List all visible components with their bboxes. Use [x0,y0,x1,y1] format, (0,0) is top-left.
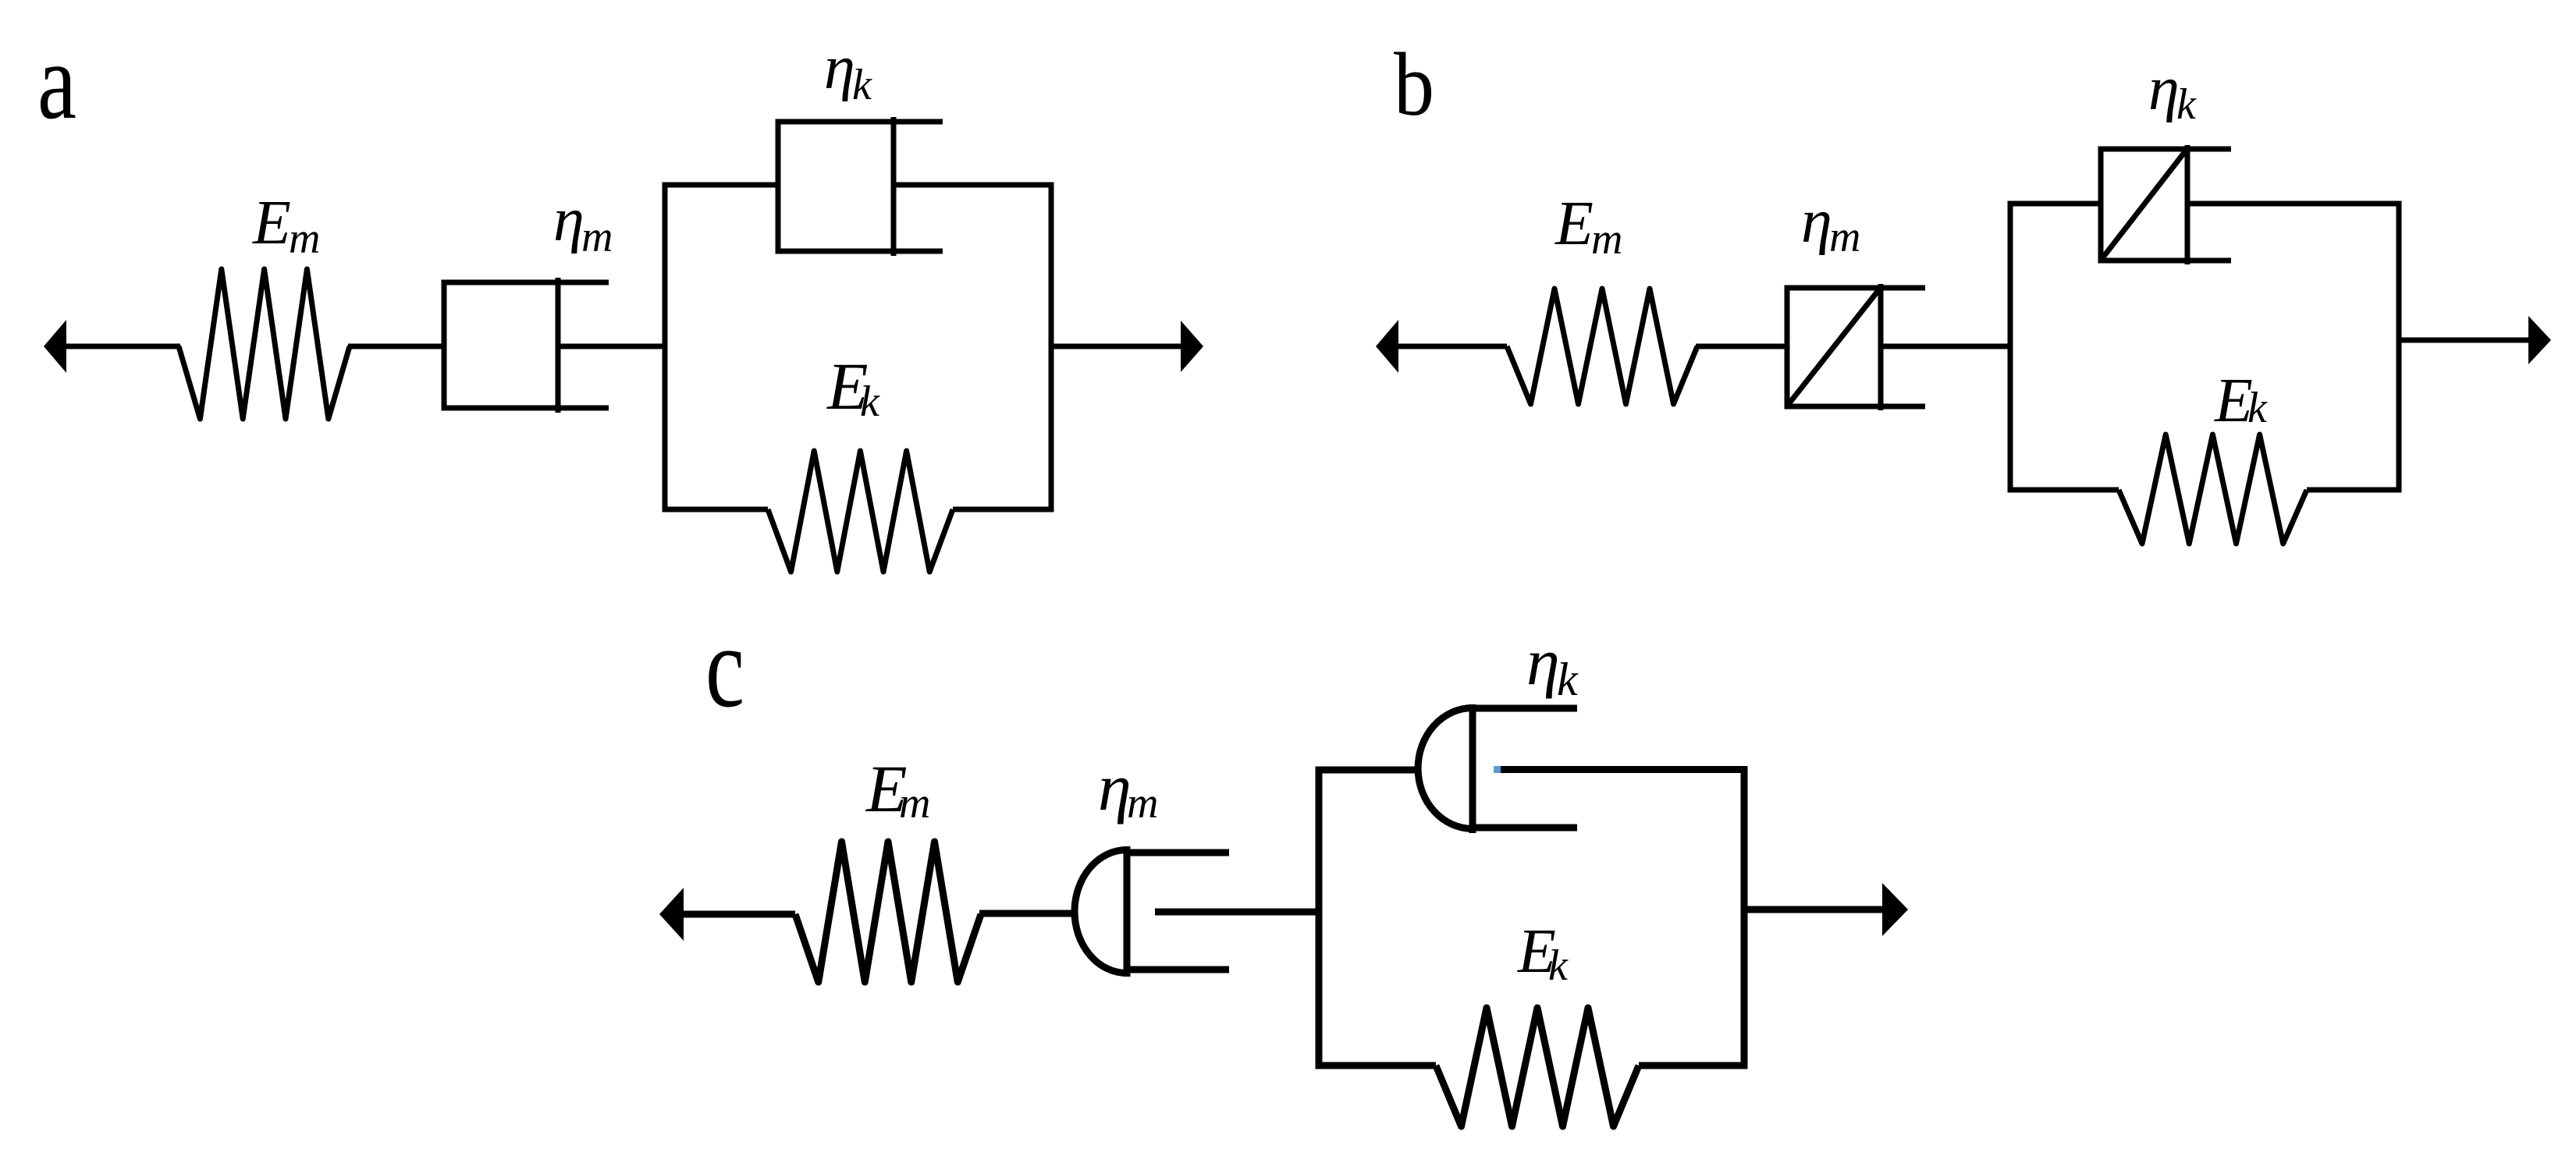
wire spring to dashpot (a) [348,344,444,349]
dashpot ηk (b) [2098,145,2231,264]
svg-text:m: m [289,215,320,263]
svg-text:η: η [1801,187,1832,256]
arrow right (a) [1051,321,1203,372]
svg-text:c: c [705,602,744,732]
dashpot ηm (c) [1075,846,1229,977]
label ηm (a) [553,186,613,261]
label a [37,21,76,142]
svg-text:η: η [2148,55,2180,123]
dashpot ηk (a) [776,117,943,256]
wire top branch right (a) [894,183,1054,188]
svg-text:k: k [2176,80,2197,129]
svg-text:k: k [1557,654,1579,705]
svg-text:a: a [37,21,76,142]
label b [1394,35,1434,134]
arrow left (c) [659,888,795,941]
wire spring to dashpot (c) [979,910,1077,917]
label Ek (c) [1517,917,1569,990]
spring Em (c) [795,842,981,982]
dashpot ηk (c) [1418,704,1577,833]
svg-text:b: b [1394,35,1434,134]
label ηk (b) [2148,55,2197,129]
label ηk (a) [824,34,872,109]
label Ek (b) [2214,367,2268,435]
wire dashpot to kelvin (c) [1155,909,1322,916]
spring Ek (a) [768,451,953,572]
label Em (c) [865,751,930,828]
svg-text:E: E [252,189,291,257]
wire spring to dashpot (b) [1696,344,1787,349]
kelvin left edge (b) [2008,201,2013,493]
label ηm (b) [1801,187,1860,261]
svg-text:k: k [860,378,880,426]
wire bottom right (b) [2307,488,2402,493]
label Em (b) [1554,190,1622,264]
wire bottom right (a) [953,507,1054,512]
arrow left (a) [44,320,180,373]
wire bottom right (c) [1639,1062,1748,1069]
blue dash on ηk rod (c) [1494,766,1501,773]
wire top branch left (b) [2008,201,2102,207]
wire top branch left (a) [663,183,779,188]
label Ek (a) [826,349,880,426]
kelvin right edge (a) [1049,183,1054,512]
wire dashpot to kelvin (a) [558,344,667,349]
svg-text:k: k [2247,384,2268,432]
dashpot ηm (b) [1785,284,1925,410]
label ηm (c) [1098,750,1158,828]
svg-text:m: m [1829,213,1860,261]
arrow left (b) [1376,320,1507,373]
svg-text:η: η [824,34,855,102]
arrow right (c) [1744,883,1908,936]
label ηk (c) [1526,624,1579,705]
svg-text:k: k [852,61,872,109]
wire bottom left (c) [1316,1062,1437,1069]
svg-text:m: m [1127,779,1158,828]
wire bottom left (a) [663,507,769,512]
dashpot ηm (a) [442,278,609,413]
kelvin right edge (b) [2397,201,2402,493]
wire top branch right (b) [2187,201,2402,207]
svg-text:m: m [899,779,930,828]
label c [705,602,744,732]
arrow right (b) [2399,316,2551,364]
svg-text:k: k [1548,942,1569,990]
spring Ek (c) [1436,1008,1639,1126]
svg-text:m: m [1591,215,1622,264]
spring Em (a) [179,269,350,419]
spring Ek (b) [2119,434,2307,544]
svg-text:m: m [581,213,613,261]
kelvin right edge (c) [1741,767,1748,1069]
wire bottom left (b) [2008,488,2119,493]
svg-text:E: E [1554,190,1594,258]
wire top branch right (c) [1501,766,1748,773]
wire top branch left (c) [1316,767,1419,774]
svg-text:η: η [553,186,584,254]
wire dashpot to kelvin (b) [1881,344,2013,349]
svg-text:η: η [1526,624,1560,699]
label Em (a) [252,189,320,263]
spring Em (b) [1507,289,1697,404]
kelvin left edge (c) [1316,767,1323,1069]
kelvin left edge (a) [663,183,668,512]
